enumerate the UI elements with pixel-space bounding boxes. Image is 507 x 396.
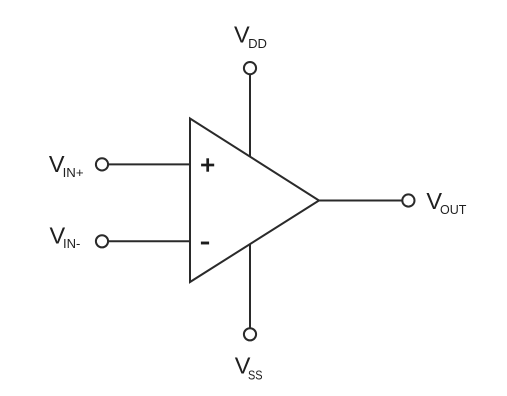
terminal VIN- — [96, 235, 108, 247]
label VIN+ — [49, 151, 84, 180]
label VOUT — [426, 188, 466, 217]
terminal VOUT — [402, 194, 414, 206]
op-amp minus input marker — [201, 242, 209, 245]
wire VIN- to op-amp — [109, 240, 191, 242]
op-amp U1 — [190, 119, 319, 283]
label VDD — [234, 22, 267, 51]
svg-text:OUT: OUT — [440, 202, 466, 217]
terminal VDD — [244, 62, 256, 74]
svg-text:IN-: IN- — [63, 236, 80, 251]
svg-text:IN+: IN+ — [63, 165, 84, 180]
terminal VIN+ — [96, 158, 108, 170]
wire op-amp to VSS — [249, 244, 251, 327]
wire op-amp output to VOUT — [319, 200, 402, 202]
wire VIN+ to op-amp — [109, 163, 191, 165]
svg-text:DD: DD — [248, 36, 267, 51]
label VIN- — [50, 222, 81, 251]
wire VDD to op-amp — [249, 75, 251, 157]
op-amp plus input marker — [201, 158, 214, 171]
svg-text:SS: SS — [248, 367, 263, 382]
terminal VSS — [244, 328, 256, 340]
label VSS — [235, 353, 263, 383]
